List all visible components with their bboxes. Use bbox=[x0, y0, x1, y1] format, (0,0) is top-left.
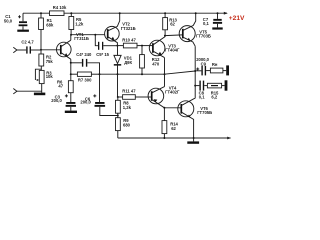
node input/R1/R2 junction bbox=[40, 49, 42, 51]
svg-text:75k: 75k bbox=[46, 59, 54, 64]
input terminal 1 bbox=[13, 47, 26, 52]
svg-text:6,2: 6,2 bbox=[211, 95, 217, 100]
wire VT3e-VT4c column bbox=[164, 58, 166, 87]
svg-text:10k: 10k bbox=[46, 74, 54, 79]
transistor VT4 bbox=[148, 86, 180, 108]
transistor VT2 bbox=[105, 12, 136, 45]
svg-text:ГТ402Г: ГТ402Г bbox=[165, 89, 180, 94]
svg-text:1,2k: 1,2k bbox=[75, 21, 84, 26]
transistor VT3 bbox=[149, 36, 180, 58]
svg-text:ГТ321Б: ГТ321Б bbox=[121, 26, 136, 31]
resistor R2 bbox=[39, 50, 53, 71]
svg-text:R11 47: R11 47 bbox=[122, 88, 136, 93]
transistor VT5 bbox=[179, 12, 211, 46]
wire VD1 to R8 node bbox=[117, 74, 119, 97]
svg-text:47: 47 bbox=[58, 84, 63, 89]
svg-text:C9: C9 bbox=[201, 61, 207, 66]
svg-text:200,0: 200,0 bbox=[80, 100, 91, 105]
ground under C3 bbox=[65, 111, 77, 113]
svg-text:0,1: 0,1 bbox=[199, 95, 205, 100]
svg-text:470: 470 bbox=[152, 62, 160, 67]
resistor R9 bbox=[116, 116, 131, 139]
node R11/R8 junction bbox=[117, 96, 119, 98]
capacitor C4 bbox=[70, 52, 100, 74]
resistor R1 bbox=[39, 13, 54, 50]
svg-text:+21V: +21V bbox=[229, 15, 245, 22]
svg-text:R7 300: R7 300 bbox=[78, 77, 92, 82]
resistor R14 bbox=[162, 108, 179, 138]
resistor R6 bbox=[57, 74, 73, 93]
resistor R15 bbox=[204, 83, 224, 99]
resistor R5 bbox=[69, 13, 84, 35]
node R10/R12 junction bbox=[141, 45, 143, 47]
svg-text:ГТ404Г: ГТ404Г bbox=[165, 47, 180, 52]
capacitor C9 bbox=[195, 57, 209, 76]
node rail R5 junction bbox=[70, 12, 72, 14]
wire VT1 collector to VT2 base bbox=[70, 34, 105, 41]
wire bottom rail bbox=[118, 137, 231, 140]
input terminal 2 bbox=[13, 89, 41, 94]
node rail R13 junction bbox=[164, 12, 166, 14]
svg-text:Rн: Rн bbox=[212, 62, 218, 67]
svg-text:62: 62 bbox=[170, 22, 175, 27]
node R8/R9/C6 junction bbox=[117, 115, 119, 117]
wire to VT6 base bbox=[164, 107, 181, 109]
resistor R7 bbox=[70, 63, 100, 83]
svg-text:50,0: 50,0 bbox=[4, 18, 13, 23]
resistor R8 bbox=[116, 97, 132, 116]
ground under R3 bbox=[34, 93, 45, 96]
wire to VT1 base bbox=[41, 49, 60, 51]
svg-text:1,2k: 1,2k bbox=[123, 105, 132, 110]
wire output rail VT5e-VT6c bbox=[194, 46, 196, 98]
transistor VT1 bbox=[57, 32, 89, 59]
node VT4 emitter junction bbox=[163, 107, 165, 109]
ground under C1 bbox=[17, 30, 29, 32]
svg-text:R10 47: R10 47 bbox=[122, 38, 136, 43]
resistor R13 bbox=[163, 13, 178, 35]
capacitor C2 bbox=[21, 40, 41, 54]
svg-text:ГТ703Б: ГТ703Б bbox=[196, 34, 211, 39]
capacitor C3 bbox=[51, 93, 76, 111]
svg-text:C4* 240: C4* 240 bbox=[76, 52, 92, 57]
wire top supply rail bbox=[23, 12, 228, 15]
svg-text:ГТ705Б: ГТ705Б bbox=[197, 110, 212, 115]
resistor Rn load bbox=[206, 62, 226, 73]
node rail C7 junction bbox=[217, 12, 219, 14]
svg-text:200,0: 200,0 bbox=[51, 98, 62, 103]
transistor VT6 bbox=[178, 98, 212, 138]
node VT3 collector junction bbox=[164, 35, 166, 37]
terminal bar output 2 bbox=[225, 80, 228, 90]
capacitor C1 bbox=[4, 13, 28, 29]
resistor R11 bbox=[118, 88, 151, 99]
node rail R1 junction bbox=[40, 12, 42, 14]
svg-text:C2 4,7: C2 4,7 bbox=[21, 40, 34, 45]
resistor R3 trimmer bbox=[35, 69, 53, 92]
resistor R4 bbox=[50, 5, 67, 15]
svg-text:Д9К: Д9К bbox=[124, 60, 132, 65]
resistor R10 bbox=[117, 38, 152, 48]
svg-text:680: 680 bbox=[123, 122, 131, 127]
svg-text:68k: 68k bbox=[46, 23, 54, 28]
svg-text:ГТ311Б: ГТ311Б bbox=[74, 36, 89, 41]
terminal bar output 1 bbox=[226, 65, 229, 75]
svg-text:C5* 15: C5* 15 bbox=[96, 52, 109, 57]
capacitor C6 bbox=[80, 74, 118, 115]
svg-text:0,1: 0,1 bbox=[203, 21, 209, 26]
svg-text:R4 10k: R4 10k bbox=[53, 5, 67, 10]
node VT2 emitter junction bbox=[116, 45, 118, 47]
ground under C7 bbox=[212, 27, 222, 29]
resistor R12 bbox=[140, 46, 161, 75]
wire to VT5 base bbox=[165, 34, 182, 37]
ground under VT6 emitter bbox=[187, 138, 199, 144]
diode VD1 bbox=[114, 46, 133, 75]
capacitor C5 bbox=[95, 35, 117, 57]
capacitor C7 bbox=[203, 13, 222, 27]
svg-text:62: 62 bbox=[171, 126, 176, 131]
wire feedback/output bus bbox=[99, 71, 196, 75]
capacitor C8 bbox=[195, 81, 205, 100]
